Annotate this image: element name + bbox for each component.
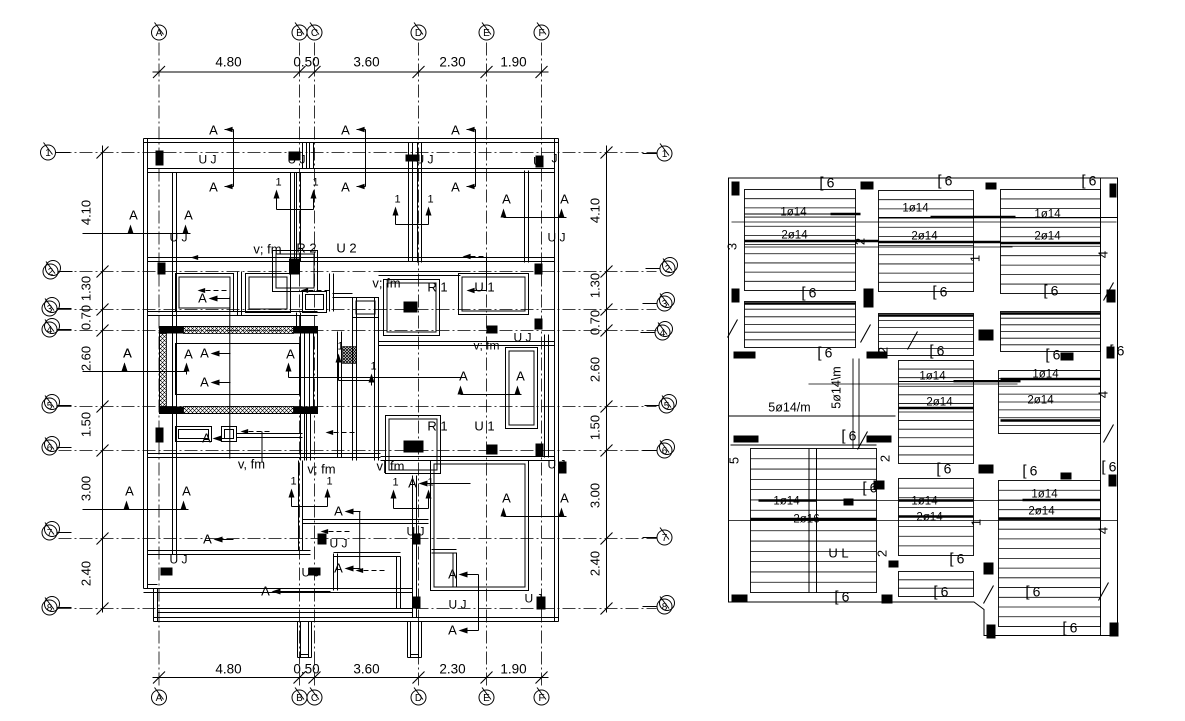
- outer wall right: [554, 139, 556, 622]
- stair opening lower line: [731, 444, 877, 446]
- grid bubble E top: [479, 25, 494, 40]
- P7 thick bars: [954, 380, 1021, 382]
- bottom-left room right wall: [298, 461, 300, 551]
- bottom mid wall y553: [334, 552, 401, 554]
- column marker column D/1: [406, 155, 420, 162]
- slab plan outline: [729, 178, 1118, 636]
- svg-text:3.60: 3.60: [353, 662, 379, 677]
- stair black corner bottom-left: [160, 407, 184, 414]
- small room A middle band: [176, 274, 234, 312]
- wall x544 tall-room enclosure: [544, 335, 546, 458]
- svg-text:B: B: [296, 693, 303, 704]
- beam diagonal tick: [728, 320, 738, 338]
- cross-hatch duct blob: [343, 347, 357, 364]
- column marker column F/6: [536, 444, 544, 457]
- column marker column A/2: [158, 263, 166, 275]
- svg-text:A: A: [408, 476, 417, 491]
- grid line 2 (horizontal dash-dot): [59, 271, 657, 273]
- slab column blob sb23: [984, 563, 994, 575]
- beam diagonal tick: [1104, 283, 1114, 301]
- svg-text:A: A: [502, 192, 511, 207]
- wall y550 bottom-left room bottom: [148, 550, 311, 552]
- long bar line y504: [759, 500, 1101, 502]
- svg-text:1.90: 1.90: [500, 662, 526, 677]
- chimney shaft left: [297, 622, 299, 658]
- svg-text:3: 3: [725, 243, 740, 250]
- svg-text:A: A: [156, 693, 163, 704]
- svg-text:2ø14: 2ø14: [926, 397, 953, 409]
- svg-text:B: B: [296, 28, 303, 39]
- svg-text:2ø14: 2ø14: [1028, 506, 1055, 518]
- svg-text:1ø14: 1ø14: [1031, 489, 1058, 501]
- slab column blob sb12: [867, 436, 892, 443]
- small room B middle band: [246, 274, 291, 313]
- grid bubble 7 left: [42, 525, 57, 540]
- room2 left wall: [296, 173, 298, 262]
- slab column blob sb8a: [1107, 290, 1116, 303]
- grid line 4 (horizontal dash-dot): [59, 330, 657, 332]
- stair black corner bottom-right: [294, 407, 318, 414]
- slab panel P12 bottom-right: [999, 481, 1101, 627]
- corridor wall right mid y341: [379, 341, 555, 343]
- grid bubble 4 right: [655, 325, 670, 340]
- grid line C (vertical dash-dot): [314, 43, 316, 689]
- svg-text:1: 1: [427, 194, 433, 206]
- room1 right wall: [290, 173, 292, 262]
- column marker column F/1: [536, 156, 544, 168]
- outer wall bottom: [154, 617, 559, 619]
- svg-text:4: 4: [660, 328, 666, 339]
- svg-text:5: 5: [727, 457, 742, 464]
- slab column blob sb7: [979, 330, 994, 341]
- wall x296 stub: [296, 313, 298, 327]
- svg-text:6: 6: [1030, 463, 1038, 479]
- A-pair connector x478: [478, 575, 480, 631]
- svg-text:U J: U J: [548, 231, 566, 245]
- svg-text:3.00: 3.00: [588, 483, 603, 508]
- svg-text:A: A: [182, 484, 191, 499]
- dashed leader arrow: [198, 288, 206, 293]
- svg-text:4: 4: [1096, 251, 1111, 258]
- svg-text:6: 6: [849, 428, 857, 444]
- slab column blob sb16: [979, 465, 994, 474]
- room3 left wall: [417, 143, 419, 263]
- slab column blob sb5: [732, 289, 740, 303]
- svg-text:6: 6: [827, 175, 835, 191]
- wall x412 bottom D: [412, 476, 414, 618]
- svg-text:1ø14: 1ø14: [1032, 369, 1059, 381]
- grid bubble A top: [152, 25, 167, 40]
- box U1: [459, 274, 529, 315]
- top dimension line: [153, 71, 549, 73]
- svg-text:A: A: [286, 347, 295, 362]
- svg-text:2ø14: 2ø14: [781, 230, 808, 242]
- slab panel P8 right col row3: [999, 371, 1101, 434]
- grid line 6 (horizontal dash-dot): [59, 450, 657, 452]
- bottom mid wall x333: [333, 554, 335, 591]
- svg-text:2: 2: [48, 267, 54, 278]
- column marker column D/8: [413, 597, 421, 609]
- slab column blob sb19: [882, 595, 893, 604]
- grid bubble 8 left: [42, 600, 57, 615]
- slab column blob sb17: [889, 561, 899, 568]
- dashed leader arrow: [321, 529, 329, 534]
- slab column blob sb9: [734, 352, 756, 359]
- slab column blob sb11: [734, 436, 759, 443]
- room2 right wall: [408, 143, 410, 262]
- svg-text:3: 3: [47, 304, 53, 315]
- grid bubble 3 right: [657, 296, 672, 311]
- svg-text:2.60: 2.60: [588, 357, 603, 382]
- svg-text:A: A: [334, 561, 343, 576]
- grid bubble F top: [534, 25, 549, 40]
- svg-text:6: 6: [1033, 584, 1041, 600]
- grid line 8 (horizontal dash-dot): [59, 608, 657, 610]
- outer wall left: [143, 139, 145, 589]
- column blob in R2 box: [289, 259, 300, 275]
- svg-text:R 1: R 1: [427, 419, 447, 434]
- stair section hline right: [289, 377, 466, 379]
- svg-text:U 2: U 2: [336, 241, 356, 256]
- svg-text:A: A: [341, 180, 350, 195]
- svg-text:1ø14: 1ø14: [911, 496, 938, 508]
- svg-text:2ø14: 2ø14: [916, 512, 943, 524]
- duct wall x374: [374, 298, 376, 461]
- svg-text:6: 6: [842, 589, 850, 605]
- svg-text:6: 6: [1117, 343, 1125, 359]
- slab column blob sb20: [987, 625, 996, 639]
- wall x176 interior left: [172, 173, 174, 555]
- slab column blob sb22: [1061, 473, 1072, 480]
- long bar line y221: [732, 221, 1117, 223]
- P6 thick top bar: [1001, 312, 1101, 314]
- closet walls inside bottom right room: [432, 549, 457, 551]
- svg-text:6: 6: [825, 345, 833, 361]
- svg-text:1: 1: [337, 341, 343, 353]
- grid bubble E bottom: [479, 690, 494, 705]
- grid line 5 (horizontal dash-dot): [59, 406, 657, 408]
- svg-text:U J: U J: [407, 525, 425, 539]
- corridor wall y519: [303, 519, 429, 521]
- bottom right room: [431, 461, 529, 591]
- outer wall top: [144, 138, 559, 140]
- svg-text:A: A: [184, 347, 193, 362]
- svg-text:4: 4: [47, 325, 53, 336]
- leader vline to v-fm: [261, 432, 263, 463]
- wall x240 mid small rooms: [237, 272, 239, 316]
- svg-text:A: A: [209, 123, 218, 138]
- P10 thick bars: [899, 499, 974, 501]
- svg-text:8: 8: [47, 603, 53, 614]
- stair hatch bottom band: [184, 407, 294, 414]
- slab column blob sb21: [1110, 623, 1119, 637]
- svg-text:6: 6: [47, 443, 53, 454]
- svg-text:A: A: [341, 123, 350, 138]
- stair section line: [229, 297, 231, 459]
- section mark pair top1: [233, 130, 235, 187]
- svg-text:v, fm: v, fm: [238, 457, 265, 472]
- svg-text:6: 6: [944, 461, 952, 477]
- svg-text:R 2: R 2: [296, 241, 316, 256]
- P3 thick bars: [1001, 242, 1101, 244]
- svg-text:U J: U J: [330, 537, 348, 551]
- stair divider double line: [808, 449, 810, 593]
- 1-pair connector top rooms D: [395, 214, 397, 225]
- svg-text:0.50: 0.50: [293, 662, 319, 677]
- wall x337: [337, 332, 339, 458]
- slab panel P9 stairs bottom-left: [751, 449, 877, 593]
- svg-text:1ø14: 1ø14: [902, 203, 929, 215]
- grid line E (vertical dash-dot): [486, 43, 488, 689]
- svg-text:U J: U J: [548, 458, 566, 472]
- svg-text:U J: U J: [302, 566, 320, 580]
- svg-text:4.10: 4.10: [79, 200, 94, 225]
- slab panel P1 top-left: [745, 190, 856, 291]
- svg-text:1.90: 1.90: [500, 55, 526, 70]
- svg-text:7: 7: [662, 533, 668, 544]
- svg-text:6: 6: [1051, 283, 1059, 299]
- svg-text:1ø14: 1ø14: [773, 496, 800, 508]
- wall y293 stub: [333, 293, 353, 295]
- corridor wall y271: [379, 271, 461, 273]
- svg-text:v; fm: v; fm: [253, 242, 281, 257]
- wall y311 small rooms bottom: [148, 311, 318, 313]
- svg-text:v; fm: v; fm: [474, 339, 500, 353]
- svg-text:A: A: [502, 491, 511, 506]
- duct wall x352: [352, 298, 354, 461]
- slab panel P3 top-right: [1001, 190, 1101, 294]
- 1-pair connector top rooms B: [276, 197, 278, 210]
- room3 right wall: [524, 171, 526, 263]
- column marker column E/4: [487, 326, 498, 334]
- slab column blob sb18: [732, 595, 748, 603]
- wall under top rooms: [148, 257, 555, 259]
- slab panel P6 mid-right: [1001, 312, 1101, 352]
- svg-text:U L: U L: [828, 546, 848, 561]
- slab panel P7 middle col row3: [899, 361, 974, 464]
- grid bubble 7 right: [657, 530, 672, 545]
- grid line D (vertical dash-dot): [418, 43, 420, 689]
- svg-text:4: 4: [1096, 391, 1111, 398]
- svg-text:U J: U J: [170, 231, 188, 245]
- svg-text:2.30: 2.30: [439, 662, 465, 677]
- wall x329 stub: [329, 274, 331, 312]
- svg-text:5ø14\m: 5ø14\m: [830, 366, 844, 408]
- grid bubble 4 left: [42, 322, 57, 337]
- stair black corner top-right: [294, 327, 318, 334]
- grid bubble F bottom: [534, 690, 549, 705]
- dashed leader arrow: [326, 430, 334, 435]
- grid line B (vertical dash-dot): [299, 43, 301, 689]
- svg-text:5ø14/m: 5ø14/m: [768, 401, 810, 415]
- svg-text:4.80: 4.80: [215, 662, 241, 677]
- svg-text:U J: U J: [170, 553, 188, 567]
- svg-text:A: A: [129, 208, 138, 223]
- svg-text:6: 6: [937, 343, 945, 359]
- grid bubble 3 left: [42, 301, 57, 316]
- grid bubble 8 right: [657, 599, 672, 614]
- grid bubble 6 right: [657, 443, 672, 458]
- svg-text:A: A: [451, 180, 460, 195]
- svg-text:U J: U J: [525, 592, 543, 606]
- box R2: [273, 251, 318, 292]
- svg-text:2.40: 2.40: [588, 551, 603, 576]
- P9 thick bars: [759, 499, 817, 501]
- svg-text:1: 1: [275, 177, 281, 189]
- P5 thick top bar: [879, 314, 974, 316]
- svg-text:6: 6: [1070, 620, 1078, 636]
- svg-text:4.80: 4.80: [215, 55, 241, 70]
- svg-text:U J: U J: [514, 331, 532, 345]
- column marker column A/7b: [161, 568, 173, 576]
- slab column blob sb1: [732, 182, 740, 196]
- svg-text:2: 2: [665, 264, 671, 275]
- column marker column D/7: [413, 534, 421, 545]
- grid bubble 5 left: [42, 398, 57, 413]
- P1 thick bars: [745, 213, 861, 215]
- slab column blob sb13: [844, 499, 854, 506]
- svg-text:1: 1: [45, 148, 51, 159]
- slab column blob sb4: [1110, 184, 1117, 198]
- grid line A (vertical dash-dot): [158, 43, 160, 689]
- column blob in bottom R1 box: [404, 441, 424, 453]
- svg-text:2: 2: [875, 550, 890, 557]
- slab panel P4 mid-left: [745, 302, 856, 348]
- svg-text:6: 6: [940, 284, 948, 300]
- grid bubble B top: [292, 25, 307, 40]
- grid line 3 (horizontal dash-dot): [59, 309, 657, 311]
- slab panel P5 mid-middle: [879, 314, 974, 356]
- svg-text:F: F: [538, 693, 544, 704]
- svg-text:A: A: [209, 180, 218, 195]
- slab column blob sb6: [864, 289, 874, 308]
- stair opening dim line: [729, 415, 896, 417]
- svg-text:A: A: [198, 291, 207, 306]
- svg-text:1: 1: [392, 477, 398, 489]
- svg-text:F: F: [538, 28, 544, 39]
- svg-text:6: 6: [945, 173, 953, 189]
- dashed leader arrow: [241, 429, 249, 434]
- grid bubble 2 right: [660, 261, 675, 276]
- grid bubble A bottom: [152, 690, 167, 705]
- svg-text:1: 1: [969, 519, 984, 526]
- svg-text:2: 2: [878, 455, 893, 462]
- svg-text:6: 6: [941, 584, 949, 600]
- svg-text:1: 1: [662, 149, 668, 160]
- svg-text:6: 6: [957, 551, 965, 567]
- svg-text:1: 1: [427, 477, 433, 489]
- box R1 near D: [384, 280, 440, 336]
- svg-text:A: A: [156, 28, 163, 39]
- beam diagonal tick: [861, 325, 871, 343]
- slab column blob sb24: [1061, 353, 1074, 361]
- slab column blob sb2: [861, 182, 874, 190]
- dashed leader arrow: [191, 255, 199, 260]
- stair right wall: [300, 334, 302, 407]
- svg-text:A: A: [334, 504, 343, 519]
- dashed leader arrow: [301, 288, 309, 293]
- column marker column B-C/1: [289, 152, 301, 161]
- column marker column F/2: [535, 264, 543, 275]
- svg-text:C: C: [311, 28, 318, 39]
- svg-text:2.30: 2.30: [439, 55, 465, 70]
- svg-text:R 1: R 1: [427, 280, 447, 295]
- slab panel P11 small bottom-middle: [899, 572, 974, 597]
- svg-text:1: 1: [968, 255, 983, 262]
- svg-text:D: D: [415, 693, 422, 704]
- grid bubble D bottom: [411, 690, 426, 705]
- svg-text:6: 6: [662, 446, 668, 457]
- beam diagonal tick: [1104, 425, 1114, 443]
- grid bubble D top: [411, 25, 426, 40]
- svg-text:8: 8: [662, 602, 668, 613]
- svg-text:1.30: 1.30: [79, 276, 94, 301]
- P4 thick top bar: [745, 302, 856, 304]
- svg-text:4.10: 4.10: [588, 198, 603, 223]
- wall y433: [237, 433, 303, 435]
- slab column blob sb10: [867, 352, 888, 359]
- grid line 1 (horizontal dash-dot): [59, 152, 657, 154]
- outer wall left bottom step: [144, 588, 154, 590]
- duct walls above bottom rooms: [300, 414, 302, 461]
- P12 thick bars: [1023, 499, 1101, 501]
- column marker column B/7b: [309, 568, 321, 576]
- svg-text:A: A: [459, 369, 468, 384]
- svg-text:U: U: [533, 155, 542, 169]
- svg-text:E: E: [483, 693, 490, 704]
- svg-text:v| fm: v| fm: [377, 459, 405, 474]
- svg-text:2: 2: [853, 238, 868, 245]
- svg-text:6: 6: [809, 285, 817, 301]
- svg-text:U J: U J: [449, 598, 467, 612]
- svg-text:0.70: 0.70: [588, 310, 603, 335]
- svg-text:1: 1: [290, 476, 296, 488]
- P2 thick bars: [879, 217, 1118, 219]
- svg-text:1ø14: 1ø14: [1034, 209, 1061, 221]
- svg-text:A: A: [125, 484, 134, 499]
- svg-text:2ø14: 2ø14: [911, 231, 938, 243]
- A marks connector x359: [359, 512, 361, 569]
- svg-text:6: 6: [1053, 347, 1061, 363]
- svg-text:A: A: [203, 532, 212, 547]
- duct square: [353, 298, 379, 318]
- grid bubble 2 left: [43, 264, 58, 279]
- column blob in R1 box: [404, 302, 418, 313]
- svg-text:3.60: 3.60: [353, 55, 379, 70]
- stair area outer rect: [160, 327, 318, 414]
- grid bubble 5 right: [659, 398, 674, 413]
- column marker column right wall 6: [559, 462, 567, 474]
- slab column blob sb14: [1109, 475, 1117, 487]
- slab panel P10 bottom-middle: [899, 479, 974, 556]
- svg-text:1.50: 1.50: [79, 412, 94, 437]
- svg-text:1.30: 1.30: [588, 273, 603, 298]
- notch room right wall: [396, 557, 398, 609]
- grid bubble 1 right: [657, 146, 672, 161]
- tall room x505: [506, 348, 538, 429]
- svg-text:A: A: [448, 623, 457, 638]
- 1-pair connector bottom rooms B: [291, 496, 293, 507]
- small chamber below R2 box: [303, 292, 327, 313]
- bottom dimension line: [153, 677, 549, 679]
- svg-text:6: 6: [1089, 173, 1097, 189]
- svg-text:v; fm: v; fm: [372, 276, 400, 291]
- stair black corner top-left: [160, 327, 184, 334]
- svg-text:0.70: 0.70: [79, 305, 94, 330]
- long bar line y246: [745, 246, 1013, 248]
- svg-text:A: A: [200, 346, 209, 361]
- terrace strip bottom wall: [158, 608, 413, 610]
